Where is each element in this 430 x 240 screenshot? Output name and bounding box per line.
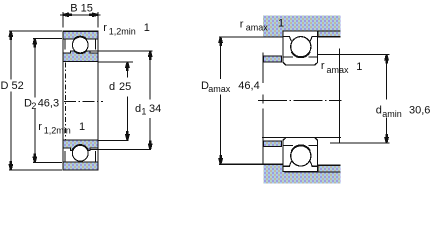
svg-text:D 52: D 52 bbox=[1, 80, 24, 92]
svg-text:B 15: B 15 bbox=[70, 2, 93, 14]
inner ring top section bbox=[63, 51, 98, 61]
bearing bottom section (right view) bbox=[283, 138, 318, 172]
outer ring raceway bottom bbox=[283, 157, 318, 166]
outer ring raceway top bbox=[283, 36, 318, 45]
inner ring bottom section bbox=[63, 140, 98, 150]
housing top bore line right of bearing bbox=[284, 30, 341, 32]
shoulder face line bbox=[262, 52, 264, 164]
svg-text:amax: amax bbox=[327, 65, 350, 75]
dimension Damax: line + arrows bbox=[220, 37, 222, 164]
housing bottom outlines bbox=[219, 164, 341, 172]
svg-text:1: 1 bbox=[141, 107, 146, 117]
svg-text:1: 1 bbox=[79, 121, 85, 133]
dimension d: extension lines bbox=[98, 62, 133, 141]
dimension d1: line + arrows bbox=[149, 51, 151, 149]
svg-text:1,2min: 1,2min bbox=[109, 26, 136, 36]
svg-text:r: r bbox=[240, 18, 244, 30]
svg-text:r: r bbox=[103, 22, 107, 34]
housing bottom block bbox=[263, 165, 340, 184]
svg-text:amax: amax bbox=[208, 84, 231, 94]
centerline right view bbox=[258, 99, 342, 101]
svg-text:d: d bbox=[376, 105, 382, 117]
inner ring raceway bottom bbox=[283, 145, 318, 151]
svg-text:1: 1 bbox=[278, 17, 284, 29]
svg-text:r: r bbox=[321, 60, 325, 72]
svg-text:1: 1 bbox=[144, 22, 150, 34]
dimension d1: extension lines bbox=[90, 51, 153, 150]
dimension D2: line + arrows bbox=[34, 39, 36, 163]
svg-text:amin: amin bbox=[382, 109, 402, 119]
svg-text:30,6: 30,6 bbox=[409, 105, 430, 117]
housing bottom bore line bbox=[284, 171, 340, 173]
ball top bbox=[72, 37, 88, 53]
ball top (right view) bbox=[291, 37, 311, 57]
bearing top section (right view) bbox=[283, 31, 318, 65]
svg-text:amax: amax bbox=[246, 23, 269, 33]
shaft shoulder bottom bbox=[263, 141, 281, 147]
svg-text:34: 34 bbox=[149, 103, 161, 115]
shaft shoulder top bbox=[263, 56, 281, 62]
inner ring raceway top bbox=[283, 52, 318, 58]
svg-text:1: 1 bbox=[356, 61, 362, 73]
dimension B: extension lines bbox=[63, 12, 98, 28]
dimension B: line + arrows bbox=[60, 14, 100, 16]
dimension D: line + arrows bbox=[10, 31, 12, 170]
dimension D: extension lines bbox=[9, 31, 62, 170]
outer ring top section bbox=[63, 31, 98, 39]
dimension damin: extension lines bbox=[318, 54, 390, 143]
cage lines top bbox=[65, 39, 95, 50]
housing top bar bbox=[263, 16, 341, 37]
outer ring bottom section bbox=[63, 162, 98, 170]
dimension damin: line + arrows bbox=[386, 55, 388, 143]
svg-text:2: 2 bbox=[31, 101, 36, 111]
chamfer reference line vertical bbox=[64, 63, 66, 140]
ball bottom bbox=[72, 145, 88, 161]
centerline horizontal bbox=[64, 100, 103, 102]
dimension D2: extension lines bbox=[33, 38, 62, 162]
shaft bore line bottom bbox=[262, 137, 341, 139]
shaft end line bbox=[339, 49, 341, 143]
svg-text:d: d bbox=[109, 81, 115, 93]
ball bottom (right view) bbox=[291, 146, 311, 166]
svg-text:r: r bbox=[38, 121, 42, 133]
svg-text:46,3: 46,3 bbox=[38, 98, 59, 110]
svg-text:46,4: 46,4 bbox=[238, 80, 259, 92]
svg-text:25: 25 bbox=[119, 81, 131, 93]
svg-text:1,2min: 1,2min bbox=[44, 126, 71, 136]
bearing outline bbox=[63, 31, 98, 170]
housing top outlines bbox=[219, 31, 341, 37]
cage lines bottom bbox=[65, 151, 95, 162]
dimension d: line + arrows bbox=[126, 62, 128, 140]
svg-text:d: d bbox=[135, 103, 141, 115]
